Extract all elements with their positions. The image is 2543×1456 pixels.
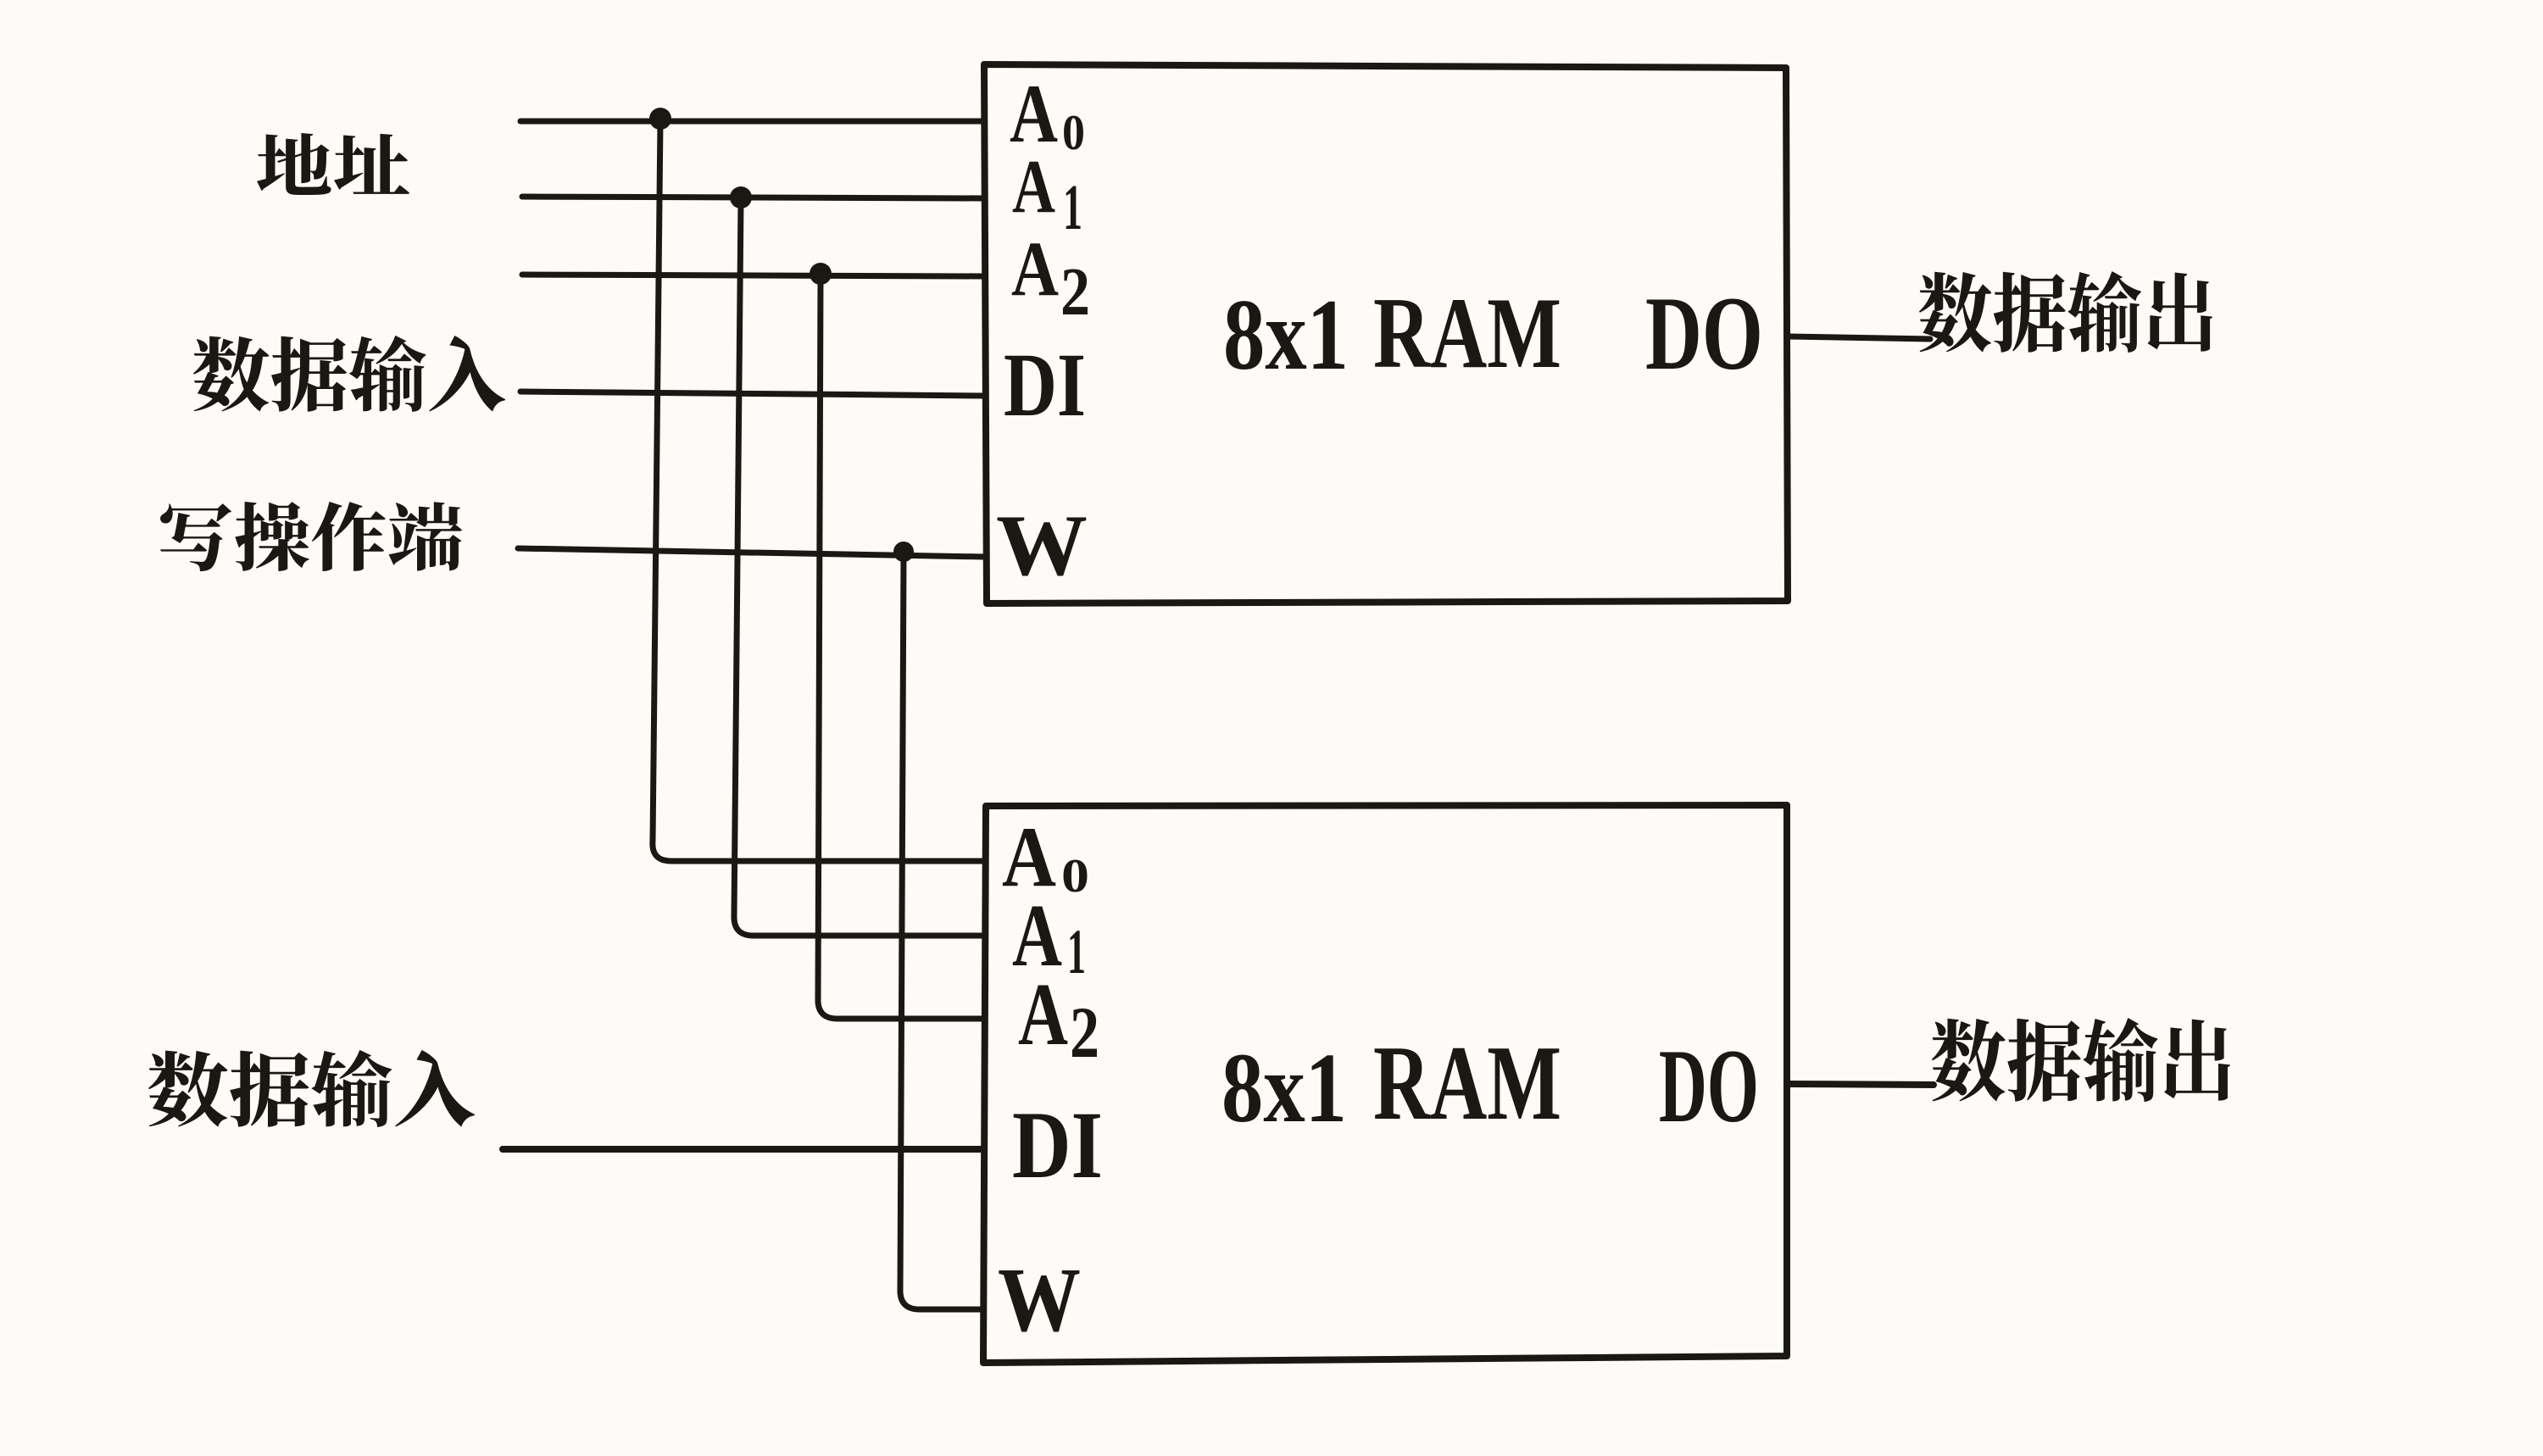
junction node A0 <box>649 108 671 130</box>
svg-text:0: 0 <box>1062 104 1085 160</box>
wire DO output U2 <box>1787 1084 1934 1085</box>
svg-text:0: 0 <box>1061 850 1089 903</box>
svg-text:DI: DI <box>1012 1092 1103 1198</box>
label write terminal 写操作端 <box>160 502 462 571</box>
svg-text:DI: DI <box>1004 336 1086 436</box>
wire DI input U2 (data in bottom) <box>503 1146 983 1153</box>
wire branch A1 to U2 <box>734 200 984 936</box>
svg-text:A: A <box>1018 964 1068 1064</box>
svg-text:DO: DO <box>1659 1028 1759 1144</box>
wire branch A2 to U2 <box>818 276 984 1019</box>
svg-text:DO: DO <box>1645 275 1763 392</box>
wire W input (write enable) <box>518 548 984 557</box>
wire branch W to U2 <box>900 553 983 1309</box>
svg-text:2: 2 <box>1070 992 1099 1073</box>
svg-text:A: A <box>1012 145 1055 229</box>
wire DO output U1 <box>1788 336 1930 339</box>
svg-text:RAM: RAM <box>1373 1025 1561 1142</box>
wire A2 input (address bit 2) <box>522 275 984 276</box>
label data-out bottom 数据输出 <box>1932 1018 2230 1102</box>
svg-text:8x1: 8x1 <box>1223 278 1349 391</box>
svg-text:A: A <box>1011 225 1059 312</box>
label data-out top 数据输出 <box>1919 271 2212 353</box>
wire DI input U1 (data in) <box>520 392 984 396</box>
wire A1 input (address bit 1) <box>522 197 984 198</box>
label address 地址 <box>257 133 409 195</box>
label data-in bottom 数据输入 <box>148 1050 475 1127</box>
RAM block U1 (8x1 RAM top) <box>984 64 1788 603</box>
junction node A1 <box>730 186 752 208</box>
svg-text:W: W <box>996 497 1088 594</box>
svg-text:W: W <box>998 1250 1081 1351</box>
svg-text:2: 2 <box>1060 255 1090 330</box>
junction node W <box>893 542 914 562</box>
wire branch A0 to U2 <box>653 120 984 861</box>
wire A0 input (address bit 0) <box>520 119 984 125</box>
RAM block U2 (8x1 RAM bottom) <box>983 805 1787 1363</box>
label data-in top 数据输入 <box>193 336 505 412</box>
svg-text:RAM: RAM <box>1373 276 1561 389</box>
svg-text:8x1: 8x1 <box>1221 1032 1347 1143</box>
junction node A2 <box>810 263 832 285</box>
svg-text:1: 1 <box>1067 917 1086 987</box>
svg-text:1: 1 <box>1063 172 1082 243</box>
